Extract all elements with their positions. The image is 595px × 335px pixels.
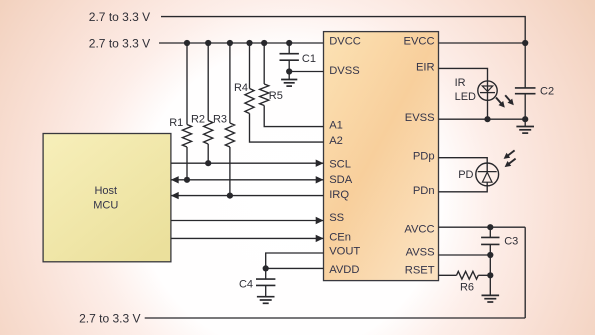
svg-text:IR: IR bbox=[455, 77, 466, 89]
svg-text:A2: A2 bbox=[329, 135, 343, 147]
svg-text:DVCC: DVCC bbox=[329, 35, 361, 47]
svg-text:2.7 to 3.3 V: 2.7 to 3.3 V bbox=[89, 10, 150, 24]
svg-text:2.7 to 3.3 V: 2.7 to 3.3 V bbox=[79, 312, 140, 326]
resistor R2 bbox=[207, 43, 209, 121]
IR LED D1 bbox=[478, 81, 497, 100]
svg-text:2.7 to 3.3 V: 2.7 to 3.3 V bbox=[89, 36, 150, 50]
svg-text:SCL: SCL bbox=[329, 159, 351, 171]
capacitor C2 bbox=[524, 43, 526, 88]
svg-text:R1: R1 bbox=[169, 117, 183, 129]
svg-text:IRQ: IRQ bbox=[329, 189, 349, 201]
svg-text:RSET: RSET bbox=[405, 264, 435, 276]
capacitor C1 bbox=[288, 43, 290, 54]
wire SCL bbox=[171, 162, 324, 164]
ground below C2/EVSS bbox=[524, 119, 526, 126]
svg-text:PDn: PDn bbox=[413, 185, 435, 197]
wire IRQ bbox=[171, 195, 324, 197]
wire EVCC to right rail bbox=[439, 42, 526, 44]
wire CEn bbox=[171, 237, 324, 239]
wire AVSS bbox=[439, 254, 491, 256]
resistor R6 bbox=[439, 274, 457, 276]
svg-text:C1: C1 bbox=[302, 53, 316, 65]
wire VOUT to AVDD junction bbox=[266, 253, 324, 268]
svg-text:R5: R5 bbox=[269, 90, 283, 102]
wire bottom VCC rail bbox=[145, 317, 526, 319]
svg-text:CEn: CEn bbox=[329, 231, 351, 243]
svg-text:PD: PD bbox=[458, 169, 473, 181]
svg-text:R3: R3 bbox=[213, 114, 227, 126]
resistor R3 bbox=[229, 43, 231, 123]
PD incoming light arrows bbox=[506, 150, 514, 156]
IC U1 (IrDA transceiver chip) bbox=[324, 32, 439, 281]
resistor R4 bbox=[249, 43, 251, 89]
svg-text:C4: C4 bbox=[239, 278, 253, 290]
wire EVSS bbox=[439, 118, 526, 120]
svg-text:AVDD: AVDD bbox=[329, 264, 359, 276]
resistor R1 bbox=[186, 43, 188, 125]
svg-text:R6: R6 bbox=[460, 281, 474, 293]
photodiode PD bbox=[476, 163, 499, 186]
wire PDp to photodiode bbox=[439, 158, 488, 163]
wire second VCC rail to DVCC pin bbox=[159, 42, 324, 44]
svg-text:C2: C2 bbox=[540, 85, 554, 97]
wire C1 to DVSS pin bbox=[289, 71, 323, 73]
wire AVCC to right vertical bbox=[439, 226, 526, 228]
wire top VCC rail to EVCC vertical bbox=[161, 17, 525, 43]
wire SDA bbox=[171, 179, 324, 181]
svg-text:MCU: MCU bbox=[93, 200, 118, 212]
svg-text:PDp: PDp bbox=[413, 150, 435, 162]
Host MCU block bbox=[43, 134, 171, 262]
svg-text:C3: C3 bbox=[504, 236, 518, 248]
ground below C1 bbox=[288, 72, 290, 80]
svg-text:AVCC: AVCC bbox=[404, 223, 434, 235]
capacitor C4 bbox=[265, 268, 267, 279]
resistor R5 bbox=[263, 43, 265, 84]
svg-text:AVSS: AVSS bbox=[406, 246, 435, 258]
svg-text:SS: SS bbox=[329, 212, 344, 224]
wire EIR to IR LED bbox=[439, 68, 488, 81]
svg-text:VOUT: VOUT bbox=[329, 245, 360, 257]
wire SS bbox=[171, 220, 324, 222]
svg-text:Host: Host bbox=[94, 185, 117, 197]
capacitor C3 bbox=[489, 227, 491, 237]
wire right vertical AVCC supply bbox=[524, 227, 526, 318]
ground below C4 bbox=[265, 285, 267, 296]
svg-text:EVSS: EVSS bbox=[405, 112, 435, 124]
svg-text:LED: LED bbox=[455, 91, 476, 103]
ground below RSET bbox=[482, 294, 500, 296]
svg-text:R4: R4 bbox=[234, 82, 248, 94]
svg-text:A1: A1 bbox=[329, 120, 343, 132]
wire AVSS junction down through RSET junction bbox=[489, 255, 491, 295]
wire PDn bbox=[439, 186, 488, 192]
IR LED emission arrows bbox=[496, 98, 502, 105]
svg-text:EVCC: EVCC bbox=[404, 35, 435, 47]
wire AVDD bbox=[266, 267, 324, 269]
svg-text:EIR: EIR bbox=[416, 62, 435, 74]
svg-text:SDA: SDA bbox=[329, 174, 353, 186]
svg-text:R2: R2 bbox=[191, 114, 205, 126]
svg-text:DVSS: DVSS bbox=[329, 65, 359, 77]
